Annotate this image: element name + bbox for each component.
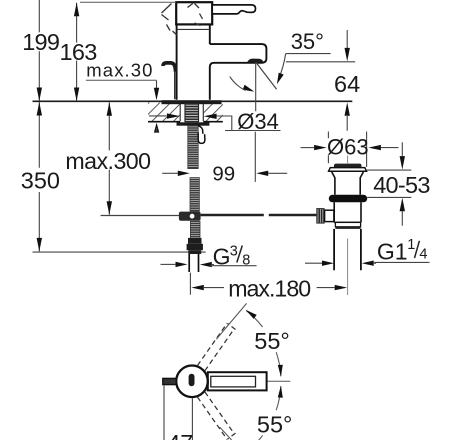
- lever handle: [212, 5, 255, 14]
- dim 64: [286, 61, 355, 63]
- spout: [210, 44, 267, 66]
- top view centerline: [212, 380, 290, 382]
- top view lever inner: [211, 376, 256, 387]
- dim Ø63: [328, 132, 366, 167]
- threaded shank: [184, 103, 199, 122]
- rod knurled knob: [316, 208, 324, 224]
- dashed lever upper position: [198, 323, 236, 371]
- drain lower body: [334, 202, 361, 222]
- dim 163: [76, 3, 78, 101]
- drain upper body: [332, 172, 364, 195]
- svg-text:1: 1: [407, 237, 415, 253]
- svg-text:G1: G1: [377, 238, 408, 264]
- counter slab hatching: [130, 102, 268, 121]
- drain tailpipe: [334, 229, 361, 270]
- svg-text:max.30: max.30: [86, 60, 153, 81]
- pop-up pull rod knob: [163, 63, 176, 72]
- upper angle extension line: [216, 303, 246, 339]
- counter top line: [33, 100, 353, 102]
- counter slab bottom edge: [148, 121, 223, 123]
- top view cartridge slot: [189, 374, 195, 387]
- drain cap: [334, 164, 362, 170]
- base flange bar: [162, 100, 222, 104]
- svg-text:8: 8: [242, 253, 250, 269]
- dim Ø34 leader: [149, 115, 167, 117]
- svg-text:199: 199: [22, 29, 59, 55]
- faucet body joint line: [177, 28, 210, 30]
- flexible hose upper section: [187, 126, 198, 169]
- rod knob cylinder: [325, 210, 334, 221]
- top view body circle: [176, 366, 208, 398]
- 35 degree tilted line: [256, 62, 277, 89]
- upper 55 degree arc: [276, 352, 281, 376]
- svg-text:64: 64: [334, 71, 360, 97]
- svg-text:35°: 35°: [291, 29, 324, 54]
- label G1 1/4: [305, 262, 322, 264]
- drain O-ring seal: [329, 195, 367, 203]
- 35 degree label and leader: [286, 53, 331, 55]
- second hose stub: [198, 126, 203, 137]
- svg-text:Ø63: Ø63: [327, 135, 369, 160]
- dim max.30: [86, 79, 157, 81]
- svg-text:47: 47: [167, 430, 193, 440]
- label G3/8: [176, 262, 188, 267]
- dim max.300: [108, 102, 110, 215]
- svg-text:Ø34: Ø34: [237, 109, 279, 134]
- flexible hose lower section: [190, 221, 200, 238]
- G3/8 connection tube: [189, 254, 198, 272]
- drain step section: [335, 222, 360, 226]
- svg-text:55°: 55°: [257, 412, 293, 438]
- svg-text:40-53: 40-53: [373, 172, 430, 198]
- dim 99: [162, 172, 178, 174]
- handle block: [176, 2, 212, 24]
- lower angle extension line: [220, 427, 232, 440]
- dashed lever lower position: [198, 392, 236, 440]
- dim 47 extension lines: [164, 385, 192, 440]
- aerator (mousseur): [247, 59, 263, 63]
- dashed handle (tilted position): [162, 3, 203, 35]
- lower 55 degree arc: [276, 386, 281, 410]
- 350 bottom reference line: [33, 251, 206, 253]
- svg-text:G: G: [213, 243, 231, 269]
- flexible hose middle section: [190, 177, 200, 211]
- svg-text:99: 99: [212, 163, 235, 186]
- svg-text:55°: 55°: [254, 328, 290, 354]
- svg-text:3: 3: [230, 243, 238, 259]
- dim 40-53: [367, 170, 412, 197]
- dim 350: [38, 102, 40, 251]
- G3/8 hose nut: [188, 238, 202, 244]
- mounting hole edges: [180, 103, 203, 121]
- svg-text:max.300: max.300: [65, 148, 150, 174]
- svg-text:350: 350: [21, 168, 60, 194]
- pop-up pull rod: [174, 72, 176, 99]
- pop-up actuating rod: [101, 215, 179, 217]
- aerator vertical reference line: [254, 62, 256, 182]
- pop-up rod pivot fitting: [179, 212, 201, 221]
- drain centerline: [347, 156, 349, 296]
- mounting nut: [177, 122, 210, 125]
- top view pull rod stub: [163, 378, 177, 384]
- dim 199: [38, 0, 40, 101]
- svg-text:4: 4: [419, 247, 427, 263]
- faucet body: [177, 24, 210, 99]
- drain flange: [329, 168, 367, 172]
- svg-text:max.180: max.180: [228, 275, 310, 301]
- dim max.180: [189, 273, 191, 295]
- top view lever outer: [208, 372, 267, 390]
